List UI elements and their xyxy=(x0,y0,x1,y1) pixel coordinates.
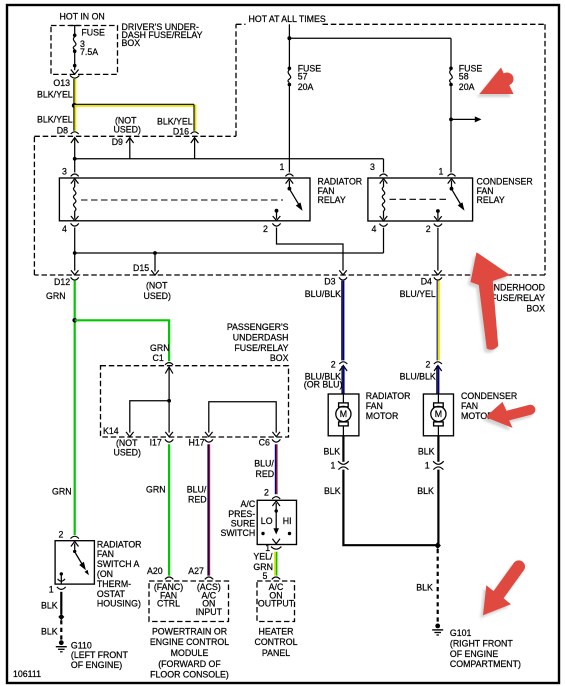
label BLU/RED H17 xyxy=(187,484,207,504)
pin 2 rad relay xyxy=(272,209,280,226)
svg-text:7.5A: 7.5A xyxy=(80,47,98,57)
svg-text:H17: H17 xyxy=(189,437,205,447)
wire BLU/YEL D4 to conn2 xyxy=(437,281,439,361)
svg-text:BLK/YEL: BLK/YEL xyxy=(37,114,73,124)
svg-text:USED): USED) xyxy=(144,291,171,301)
svg-text:2: 2 xyxy=(426,224,431,234)
svg-text:BLK: BLK xyxy=(324,446,341,456)
radiator fan switch A box xyxy=(55,541,94,584)
svg-text:OUTPUT: OUTPUT xyxy=(258,599,295,609)
svg-text:D15: D15 xyxy=(133,263,149,273)
svg-text:CTRL: CTRL xyxy=(157,599,180,609)
connector 5 heater panel xyxy=(272,577,280,579)
label fuse 57 xyxy=(298,63,322,91)
svg-text:D3: D3 xyxy=(324,277,335,287)
svg-text:K14: K14 xyxy=(103,426,119,436)
node bus junction xyxy=(287,36,291,40)
svg-text:BLK: BLK xyxy=(417,486,434,496)
wire BLK cond motor xyxy=(437,436,439,462)
label A/C ON OUTPUT xyxy=(258,582,295,609)
svg-text:3: 3 xyxy=(370,162,375,172)
pin 3 rad relay connector xyxy=(71,174,79,184)
passenger's underdash fuse/relay box (dashed) xyxy=(101,366,289,437)
svg-text:USED): USED) xyxy=(114,447,141,457)
fuse F3 7.5A xyxy=(70,26,80,71)
svg-text:A27: A27 xyxy=(188,566,204,576)
svg-text:FUSE/RELAY: FUSE/RELAY xyxy=(491,293,545,303)
svg-text:BLK: BLK xyxy=(324,486,341,496)
pin 2 pressure switch connector xyxy=(272,497,280,499)
wire BLK dashed to G101 xyxy=(437,549,439,623)
svg-text:GRN: GRN xyxy=(146,484,166,494)
junction node BLK/YEL xyxy=(72,103,77,108)
label BLU/RED C6 xyxy=(254,459,274,480)
fuse F57 20A xyxy=(288,38,292,172)
svg-text:HI: HI xyxy=(283,516,292,526)
node fuse58 tap xyxy=(449,118,453,122)
svg-text:1: 1 xyxy=(331,461,336,471)
svg-text:M: M xyxy=(340,409,347,419)
connector 2 rad motor xyxy=(339,362,347,371)
svg-text:BLK/YEL: BLK/YEL xyxy=(157,116,193,126)
svg-text:(ON: (ON xyxy=(97,569,113,579)
svg-text:CONTROL: CONTROL xyxy=(254,637,297,647)
svg-text:BLK: BLK xyxy=(416,583,433,593)
wire BLU/BLK conn2 to cond motor xyxy=(437,366,439,394)
svg-text:BOX: BOX xyxy=(526,304,545,314)
dashed actuation line cond relay xyxy=(390,198,447,200)
label driver's box xyxy=(122,22,203,48)
wire rad coil to D12 xyxy=(73,228,77,271)
svg-text:HOUSING): HOUSING) xyxy=(97,599,141,609)
svg-text:GRN: GRN xyxy=(52,487,72,497)
label condenser fan relay xyxy=(477,176,533,205)
svg-text:RELAY: RELAY xyxy=(318,195,346,205)
svg-text:RADIATOR: RADIATOR xyxy=(318,176,363,186)
svg-text:2: 2 xyxy=(331,359,336,369)
svg-text:BLK: BLK xyxy=(418,446,435,456)
label radiator fan switch A xyxy=(97,539,142,608)
svg-text:HOT IN ON: HOT IN ON xyxy=(60,12,105,22)
svg-text:BLK/YEL: BLK/YEL xyxy=(37,90,73,100)
ECM box (dashed) xyxy=(149,581,229,622)
svg-text:FLOOR CONSOLE): FLOOR CONSOLE) xyxy=(150,670,229,680)
connector D12 xyxy=(71,270,79,280)
svg-text:UNDERHOOD: UNDERHOOD xyxy=(487,283,545,293)
label radiator fan relay xyxy=(318,176,363,205)
svg-text:I17: I17 xyxy=(150,437,162,447)
connector 1 cond motor xyxy=(433,461,444,469)
underhood fuse/relay box outline (dashed) xyxy=(34,24,545,275)
connector D4 xyxy=(434,270,442,280)
svg-text:HEATER: HEATER xyxy=(258,626,293,636)
connector A27 xyxy=(205,577,213,579)
pin 4 rad relay connector xyxy=(71,223,79,226)
connector D15 stub xyxy=(151,253,159,275)
wire C1 to I17 xyxy=(167,367,171,433)
label G101 xyxy=(450,628,521,669)
wire BLK rad motor to junction xyxy=(343,470,437,546)
svg-text:BLU/YEL: BLU/YEL xyxy=(400,289,436,299)
wire GRN I17 to A20 xyxy=(168,444,170,575)
connector K14 xyxy=(126,432,134,437)
pin arrow out of fuse box xyxy=(71,70,79,75)
svg-text:SWITCH: SWITCH xyxy=(220,528,255,538)
svg-text:106111: 106111 xyxy=(13,669,41,679)
svg-text:(OR BLU): (OR BLU) xyxy=(304,380,343,390)
svg-text:D8: D8 xyxy=(57,126,68,136)
wire GRN branch to C1 xyxy=(75,320,169,361)
svg-text:D9: D9 xyxy=(112,137,123,147)
label YEL/GRN xyxy=(253,552,273,572)
connector C1 xyxy=(165,363,173,374)
pin 4 cond relay connector xyxy=(379,224,387,227)
svg-text:4: 4 xyxy=(62,224,67,234)
wire BLK/YEL from O13 to junction xyxy=(74,79,75,105)
label passenger's box xyxy=(227,322,289,363)
svg-text:2: 2 xyxy=(426,359,431,369)
svg-text:2: 2 xyxy=(59,530,64,540)
wire BLK/YEL bus D8-D9-D16 to condenser coil xyxy=(73,138,384,173)
wire feed into box xyxy=(288,24,290,38)
svg-text:CONDENSER: CONDENSER xyxy=(461,391,517,401)
wire BLK fan switch xyxy=(60,592,62,614)
connector 2 cond motor xyxy=(434,362,442,371)
pin 1 cond relay connector xyxy=(448,174,456,184)
connector D3 xyxy=(339,270,347,280)
label ACS A/C ON INPUT xyxy=(196,582,223,617)
svg-text:RADIATOR: RADIATOR xyxy=(97,539,142,549)
svg-text:FAN: FAN xyxy=(461,401,478,411)
svg-text:BLK: BLK xyxy=(41,600,58,610)
wire BLU/BLK conn2 to rad motor xyxy=(342,366,344,394)
svg-text:2: 2 xyxy=(263,224,268,234)
svg-text:CONDENSER: CONDENSER xyxy=(477,176,533,186)
wire cond pin2 to D4 xyxy=(437,228,439,271)
connector A20 xyxy=(165,577,173,579)
connector D16 xyxy=(191,132,199,143)
wire jumper H17 to C6 xyxy=(209,402,276,433)
svg-text:57: 57 xyxy=(298,72,308,82)
svg-text:(LEFT FRONT: (LEFT FRONT xyxy=(71,650,129,660)
svg-text:1: 1 xyxy=(49,585,54,595)
svg-text:1: 1 xyxy=(425,461,430,471)
wire BLK/YEL horizontal to D16 xyxy=(74,104,196,105)
wire branch to K14 xyxy=(130,401,169,433)
label underhood fuse/relay box xyxy=(487,283,545,314)
relay coil cond xyxy=(380,181,388,221)
svg-text:RED: RED xyxy=(256,469,275,479)
condenser fan motor box xyxy=(423,394,453,436)
label (NOT USED) D15 xyxy=(144,280,171,301)
svg-text:GRN: GRN xyxy=(150,343,170,353)
wire tap arrow xyxy=(451,116,482,122)
svg-text:BOX: BOX xyxy=(122,38,141,48)
connector D9 xyxy=(126,138,134,143)
svg-text:SURE: SURE xyxy=(231,518,256,528)
wire BLK/YEL down to D8 xyxy=(74,106,75,131)
dashed actuation line rad relay xyxy=(81,199,283,201)
connector O13 bracket xyxy=(70,75,79,78)
connector D8 xyxy=(71,132,79,143)
svg-text:C6: C6 xyxy=(259,437,270,447)
radiator fan motor box xyxy=(328,394,359,436)
motor M rad xyxy=(336,394,351,436)
svg-text:UNDERDASH: UNDERDASH xyxy=(233,332,289,342)
label FANC FAN CTRL xyxy=(154,582,183,609)
svg-text:BLU/: BLU/ xyxy=(254,459,274,469)
svg-text:(NOT: (NOT xyxy=(146,280,168,290)
svg-text:SWITCH A: SWITCH A xyxy=(97,559,140,569)
wire GRN D12 down to fan switch xyxy=(74,281,76,535)
svg-text:PANEL: PANEL xyxy=(262,648,290,658)
pin 1 rad relay connector xyxy=(285,174,293,184)
a/c pressure switch box xyxy=(257,500,296,544)
red arrow 1 (fuse 58) xyxy=(480,68,514,95)
svg-text:GRN: GRN xyxy=(46,291,66,301)
svg-text:RELAY: RELAY xyxy=(477,195,505,205)
svg-text:G110: G110 xyxy=(71,640,92,650)
connector C6 xyxy=(272,432,280,442)
pin 2 cond relay xyxy=(434,209,442,226)
pin 1 fan switch connector xyxy=(57,587,66,589)
svg-text:A/C: A/C xyxy=(241,499,256,509)
relay switch rad xyxy=(288,181,303,211)
svg-text:MODULE: MODULE xyxy=(171,648,209,658)
svg-text:20A: 20A xyxy=(459,82,475,92)
red arrow 2 (underhood box) xyxy=(471,252,511,350)
svg-text:1: 1 xyxy=(439,167,444,177)
svg-text:OSTAT: OSTAT xyxy=(97,589,126,599)
pin 2 fan switch connector xyxy=(71,536,79,538)
svg-text:MOTOR: MOTOR xyxy=(366,411,399,421)
svg-text:20A: 20A xyxy=(298,82,314,92)
ground G110 xyxy=(56,640,67,652)
svg-text:INPUT: INPUT xyxy=(196,607,223,617)
label fuse 58 xyxy=(459,63,483,91)
svg-text:D16: D16 xyxy=(173,126,189,136)
svg-text:FUSE: FUSE xyxy=(81,27,105,37)
svg-text:C1: C1 xyxy=(153,353,164,363)
svg-text:FAN: FAN xyxy=(97,549,114,559)
svg-text:FUSE/RELAY: FUSE/RELAY xyxy=(234,343,288,353)
svg-text:BLU/BLK: BLU/BLK xyxy=(305,289,341,299)
svg-text:RED: RED xyxy=(188,495,207,505)
svg-text:OF ENGINE): OF ENGINE) xyxy=(71,660,122,670)
connector I17 xyxy=(165,432,173,442)
label BLU/BLK (OR BLU) xyxy=(304,371,343,389)
svg-text:4: 4 xyxy=(372,224,377,234)
motor M cond xyxy=(431,394,446,436)
label radiator fan motor xyxy=(366,391,411,421)
A/C ON OUTPUT box (dashed) xyxy=(257,581,295,622)
relay coil rad xyxy=(71,181,79,221)
svg-text:USED): USED) xyxy=(114,125,141,135)
svg-text:FAN: FAN xyxy=(366,401,383,411)
svg-text:58: 58 xyxy=(459,72,469,82)
svg-text:D4: D4 xyxy=(421,277,432,287)
svg-text:D12: D12 xyxy=(54,277,70,287)
wire BLU/BLK D3 to conn2 xyxy=(342,281,344,361)
svg-text:O13: O13 xyxy=(53,78,70,88)
wire BLU/RED C6 to pressure switch xyxy=(276,444,277,494)
driver's under-dash fuse/relay box (dashed) xyxy=(51,26,118,75)
label (NOT USED) D9 xyxy=(114,116,141,135)
svg-text:A20: A20 xyxy=(147,566,163,576)
label heater control panel xyxy=(254,626,297,658)
condenser fan relay box xyxy=(368,178,473,221)
pressure switch internals xyxy=(261,501,291,544)
svg-text:YEL/: YEL/ xyxy=(253,552,273,562)
svg-text:ENGINE CONTROL: ENGINE CONTROL xyxy=(150,637,229,647)
label (NOT USED) K14 xyxy=(114,438,141,457)
relay switch cond xyxy=(450,181,465,211)
svg-text:BLK: BLK xyxy=(41,626,58,636)
node G110 junction xyxy=(58,614,64,621)
svg-text:BLU/BLK: BLU/BLK xyxy=(400,371,436,381)
label fuse 3 xyxy=(80,27,105,57)
svg-text:PRES-: PRES- xyxy=(228,509,255,519)
label condenser fan motor xyxy=(461,391,517,421)
svg-text:RADIATOR: RADIATOR xyxy=(366,391,411,401)
svg-text:BLU/: BLU/ xyxy=(187,484,207,494)
wire BLK/YEL down to D16 xyxy=(194,105,195,131)
node G101 junction xyxy=(435,542,441,549)
red arrow 3 (condenser motor) xyxy=(485,402,535,428)
wire rad relay pin2 to D3 xyxy=(277,228,344,271)
svg-text:2: 2 xyxy=(264,488,269,498)
svg-text:M: M xyxy=(435,409,442,419)
svg-text:PASSENGER'S: PASSENGER'S xyxy=(227,322,289,332)
svg-text:(FORWARD OF: (FORWARD OF xyxy=(158,659,221,669)
pin 3 cond relay connector xyxy=(380,174,388,184)
connector H17 xyxy=(205,432,213,442)
radiator fan relay box xyxy=(59,178,310,221)
fan switch internals xyxy=(58,541,89,583)
svg-text:3: 3 xyxy=(62,166,67,176)
red arrow 4 (G101) xyxy=(483,560,525,615)
wire BLK cond motor to junction xyxy=(437,470,439,546)
wire BLK dashed to G110 xyxy=(60,620,62,640)
node GRN branch xyxy=(72,318,77,323)
svg-text:OF ENGINE: OF ENGINE xyxy=(450,649,499,659)
svg-text:(RIGHT FRONT: (RIGHT FRONT xyxy=(450,638,514,648)
svg-text:HOT AT ALL TIMES: HOT AT ALL TIMES xyxy=(249,14,326,24)
fuse F58 20A xyxy=(449,38,453,172)
svg-text:COMPARTMENT): COMPARTMENT) xyxy=(450,659,521,669)
label a/c pressure switch xyxy=(220,499,255,538)
label powertrain module xyxy=(150,626,229,679)
pin 1 pressure switch connector xyxy=(271,547,281,550)
svg-text:G101: G101 xyxy=(450,628,472,638)
wire cond pin4 to ground bus xyxy=(383,228,385,253)
wire BLU/RED H17 to A27 xyxy=(208,444,209,575)
svg-text:LO: LO xyxy=(261,516,273,526)
svg-text:POWERTRAIN OR: POWERTRAIN OR xyxy=(152,626,227,636)
svg-text:THERM-: THERM- xyxy=(97,579,131,589)
svg-text:1: 1 xyxy=(280,162,285,172)
label G110 xyxy=(71,640,129,670)
wire coil ground bus to condenser pin 4 xyxy=(75,251,384,255)
wire bus to fuse 58 xyxy=(289,37,451,39)
svg-text:BOX: BOX xyxy=(270,353,289,363)
svg-text:5: 5 xyxy=(263,571,268,581)
wire BLK rad motor xyxy=(342,436,344,462)
ground G101 xyxy=(432,624,443,636)
connector 1 rad motor xyxy=(338,461,349,469)
wire YEL/GRN to heater panel xyxy=(275,552,277,576)
